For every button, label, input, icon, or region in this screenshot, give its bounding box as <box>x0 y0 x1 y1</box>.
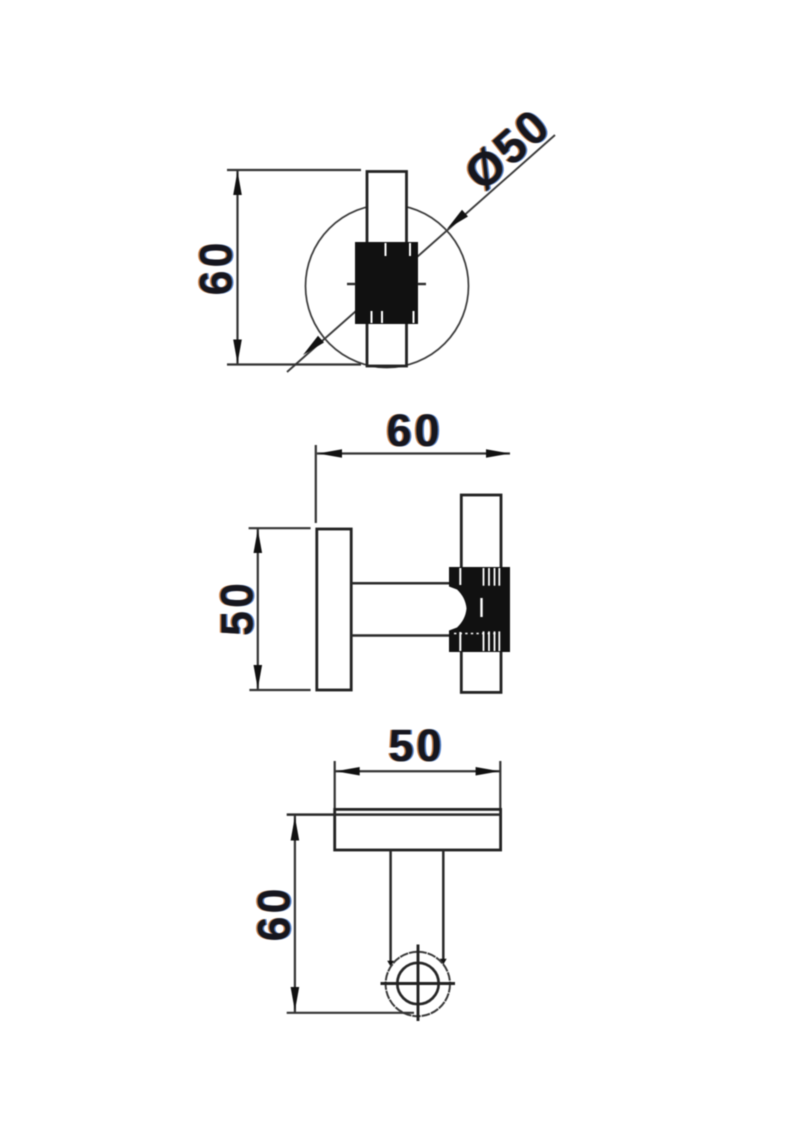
dimension line <box>294 816 296 1013</box>
extension line bottom <box>249 689 310 691</box>
wall reference line <box>287 813 501 816</box>
extension line top <box>227 169 361 171</box>
stem end tick left <box>387 961 394 967</box>
dimension 60 (side view, horizontal, top) <box>316 405 510 523</box>
wall plate (side view) <box>317 529 351 690</box>
dimension 60 (top view, vertical, left) <box>189 170 361 365</box>
centre mark vertical <box>417 945 420 1022</box>
svg-text:50: 50 <box>212 580 263 636</box>
dimension line <box>335 770 501 772</box>
hook bar (vertical, front view) <box>367 172 407 367</box>
stem line left <box>389 850 392 963</box>
wall-plate circle (front view, Ø50) <box>306 205 469 368</box>
dimension 50 (side view, vertical, left) <box>210 528 311 690</box>
arm top line <box>351 582 455 585</box>
hook end outer circle (knurled) <box>386 952 450 1016</box>
arm bottom line <box>351 634 455 637</box>
svg-text:60: 60 <box>386 405 442 456</box>
leader arrowhead (lower left end) <box>303 336 324 355</box>
knurled hub (solid hatched block) <box>355 242 418 324</box>
arrow down <box>254 665 263 689</box>
svg-text:60: 60 <box>249 885 300 941</box>
arrow up <box>291 817 300 841</box>
extension line (left, from plate top corner) <box>315 445 317 523</box>
svg-text:60: 60 <box>191 239 242 295</box>
dimension line <box>317 452 510 454</box>
extension line left <box>334 761 336 808</box>
stem line right <box>442 850 445 961</box>
svg-text:50: 50 <box>388 720 444 771</box>
extension line bottom <box>287 1012 414 1014</box>
leader line for Ø50 <box>287 135 555 372</box>
extension line bottom <box>227 363 361 365</box>
knurled hub (side view, hatched block with notch) <box>449 567 510 652</box>
dimension line <box>236 170 238 365</box>
hook end inner circle <box>397 963 438 1004</box>
arrow right <box>476 767 500 776</box>
wall plate (plan view) <box>335 809 501 850</box>
centre line tick (right of hub) <box>418 283 427 285</box>
arrow up <box>233 171 242 195</box>
dimension 60 (plan view, vertical, left) <box>247 816 414 1013</box>
extension line right <box>499 761 501 808</box>
leader arrowhead on circle (upper right) <box>447 210 468 229</box>
arrow down <box>233 340 242 364</box>
extension line top <box>249 527 311 529</box>
dimension 50 (plan view, horizontal, top) <box>335 720 501 808</box>
arrow right <box>486 449 510 458</box>
dimension line <box>257 528 259 690</box>
centre mark horizontal <box>381 982 456 985</box>
stem end tick right <box>440 959 447 965</box>
arrow left <box>318 449 342 458</box>
arrow down <box>291 987 300 1011</box>
hook bar (side view) <box>461 495 501 692</box>
centre line tick (left of hub) <box>347 283 356 285</box>
arrow up <box>254 529 263 553</box>
arrow left <box>336 767 360 776</box>
